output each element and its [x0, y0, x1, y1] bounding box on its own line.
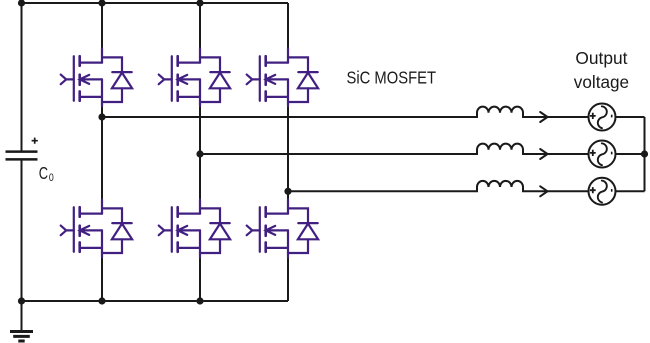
gate lead fork of Q3	[247, 75, 260, 85]
cathode bar of D4	[112, 222, 131, 224]
sine glyph of V3	[598, 181, 607, 203]
anode triangle of D6	[298, 224, 318, 240]
wire: drain stub of Q4	[101, 200, 103, 214]
anode triangle of D4	[112, 224, 132, 240]
gate plate of Q4	[73, 207, 75, 252]
wire: drain stub of Q1	[101, 49, 103, 63]
current arrow on phase A	[540, 112, 547, 122]
wire: source vertical of Q1	[101, 79, 103, 106]
wire: drain stub of Q5	[199, 200, 201, 214]
cathode bar of D1	[112, 71, 131, 73]
node DC+ rail / leg 2	[196, 0, 203, 7]
wire: leg 2 midpoint vertical	[199, 106, 201, 200]
wire: source bar connection of Q2	[178, 96, 200, 98]
inductor LB	[477, 144, 523, 154]
gate plate of Q2	[171, 56, 173, 101]
current arrow on phase B	[540, 149, 547, 159]
wire: anode stub to source	[200, 88, 220, 102]
diode D2 (body diode of Q2)	[200, 57, 230, 102]
wire: V2 to right bus	[616, 153, 645, 155]
cathode bar of D6	[298, 222, 317, 224]
wire: leg 2 source connection to DC- rail	[199, 257, 201, 301]
wire: source vertical of Q5	[199, 230, 201, 257]
wire: leg 2 drain connection to DC+ rail	[199, 3, 201, 49]
wire: source bar connection of Q5	[178, 247, 200, 249]
wire: drain horizontal to channel of Q2	[178, 61, 200, 63]
capacitor C0 (DC link)	[6, 152, 38, 160]
wire: body connection with arrow of Q2	[178, 75, 200, 84]
gate lead fork of Q4	[61, 226, 74, 236]
wire: phase B to load	[522, 153, 589, 155]
node phase C node	[284, 188, 291, 195]
wire: body connection with arrow of Q1	[80, 75, 102, 84]
polarity + of C0	[32, 138, 38, 144]
transistor Q6 (SiC MOSFET, leg at x=288)	[247, 200, 288, 258]
wire: cathode branch from drain	[102, 208, 122, 223]
wire: leg 1 source connection to DC- rail	[101, 257, 103, 301]
channel bars (drain/body/source contacts) of Q2	[176, 56, 179, 101]
AC source V1	[589, 104, 616, 131]
minus tick of V3	[611, 189, 613, 192]
node DC- rail / leg 1	[98, 297, 105, 304]
wire: phase B output from leg	[200, 153, 478, 155]
cathode bar of D3	[298, 71, 317, 73]
diode D3 (body diode of Q3)	[288, 57, 318, 102]
wire: body connection with arrow of Q4	[80, 226, 102, 235]
wire: anode stub to source	[102, 88, 122, 102]
svg-text:Output: Output	[575, 48, 627, 68]
channel bars (drain/body/source contacts) of Q6	[264, 207, 267, 252]
wire: phase A output from leg	[102, 116, 478, 118]
AC source V3	[589, 178, 616, 205]
wire: source bar connection of Q3	[266, 96, 288, 98]
wire: anode stub to source	[288, 239, 308, 253]
svg-text:C: C	[39, 163, 49, 183]
svg-text:voltage: voltage	[574, 72, 629, 92]
wire: body connection with arrow of Q5	[178, 226, 200, 235]
wire: left DC bus upper segment	[21, 3, 23, 152]
plus sign of V1	[590, 113, 596, 119]
gate lead fork of Q6	[247, 226, 260, 236]
plus sign of V2	[590, 150, 596, 156]
channel bars (drain/body/source contacts) of Q5	[176, 207, 179, 252]
transistor Q3 (SiC MOSFET, leg at x=288)	[247, 49, 288, 107]
anode triangle of D5	[210, 224, 230, 240]
transistor Q1 (SiC MOSFET, leg at x=102)	[61, 49, 102, 107]
channel bars (drain/body/source contacts) of Q1	[78, 56, 81, 101]
wire: body connection with arrow of Q3	[266, 75, 288, 84]
wire: bottom DC- rail	[22, 300, 289, 302]
wire: source bar connection of Q6	[266, 247, 288, 249]
wire: cathode branch from drain	[200, 208, 220, 223]
wire: source vertical of Q2	[199, 79, 201, 106]
wire: leg 3 drain connection to DC+ rail	[287, 3, 289, 49]
wire: drain horizontal to channel of Q1	[80, 61, 102, 63]
diode D5 (body diode of Q5)	[200, 208, 230, 253]
svg-text:0: 0	[49, 172, 54, 184]
wire: cathode branch from drain	[288, 57, 308, 72]
wire: top DC+ rail	[22, 2, 289, 4]
wire: drain horizontal to channel of Q6	[266, 213, 288, 215]
wire: source bar connection of Q4	[80, 247, 102, 249]
wire: cathode branch from drain	[102, 57, 122, 72]
node DC- rail / leg 2	[196, 297, 203, 304]
gate lead fork of Q1	[61, 75, 74, 85]
node DC- rail / left bus	[18, 297, 25, 304]
transistor Q4 (SiC MOSFET, leg at x=102)	[61, 200, 102, 258]
node DC+ rail / leg 1	[98, 0, 105, 7]
svg-text:SiC MOSFET: SiC MOSFET	[347, 67, 437, 87]
inductor LA	[477, 107, 523, 117]
wire: source bar connection of Q1	[80, 96, 102, 98]
anode triangle of D1	[112, 73, 132, 89]
sine glyph of V2	[598, 143, 607, 165]
diode D1 (body diode of Q1)	[102, 57, 132, 102]
diode D4 (body diode of Q4)	[102, 208, 132, 253]
gate plate of Q5	[171, 207, 173, 252]
cathode bar of D2	[210, 71, 229, 73]
ground	[10, 301, 33, 341]
wire: anode stub to source	[288, 88, 308, 102]
wire: left DC bus lower segment	[21, 159, 23, 301]
wire: phase C to load	[522, 190, 589, 192]
node phase A node	[98, 113, 105, 120]
wire: anode stub to source	[200, 239, 220, 253]
wire: body connection with arrow of Q6	[266, 226, 288, 235]
cathode bar of D5	[210, 222, 229, 224]
current arrow on phase C	[540, 186, 547, 196]
channel bars (drain/body/source contacts) of Q3	[264, 56, 267, 101]
wire: drain stub of Q6	[287, 200, 289, 214]
wire: cathode branch from drain	[200, 57, 220, 72]
transistor Q5 (SiC MOSFET, leg at x=200)	[159, 200, 200, 258]
plus sign of V3	[590, 187, 596, 193]
transistor Q2 (SiC MOSFET, leg at x=200)	[159, 49, 200, 107]
wire: leg 3 source connection to DC- rail	[287, 257, 289, 301]
node DC+ rail / left bus	[18, 0, 25, 7]
anode triangle of D3	[298, 73, 318, 89]
wire: drain horizontal to channel of Q5	[178, 213, 200, 215]
channel bars (drain/body/source contacts) of Q4	[78, 207, 81, 252]
wire: source vertical of Q3	[287, 79, 289, 106]
wire: anode stub to source	[102, 239, 122, 253]
wire: leg 3 midpoint vertical	[287, 106, 289, 200]
wire: drain horizontal to channel of Q3	[266, 61, 288, 63]
anode triangle of D2	[210, 73, 230, 89]
node phase B node	[196, 150, 203, 157]
wire: leg 1 midpoint vertical	[101, 106, 103, 200]
wire: source vertical of Q4	[101, 230, 103, 257]
wire: source vertical of Q6	[287, 230, 289, 257]
gate plate of Q1	[73, 56, 75, 101]
wire: drain stub of Q3	[287, 49, 289, 63]
wire: phase C output from leg	[288, 190, 478, 192]
wire: cathode branch from drain	[288, 208, 308, 223]
wire: drain horizontal to channel of Q4	[80, 213, 102, 215]
wire: V3 to right bus	[616, 190, 645, 192]
minus tick of V2	[611, 152, 613, 155]
inductor LC	[477, 181, 523, 191]
gate lead fork of Q2	[159, 75, 172, 85]
minus tick of V1	[611, 115, 613, 118]
gate lead fork of Q5	[159, 226, 172, 236]
gate plate of Q3	[259, 56, 261, 101]
gate plate of Q6	[259, 207, 261, 252]
wire: V1 to right bus	[616, 116, 645, 118]
wire: drain stub of Q2	[199, 49, 201, 63]
diode D6 (body diode of Q6)	[288, 208, 318, 253]
node neutral bus / V2	[641, 150, 648, 157]
wire: right neutral bus	[644, 117, 646, 191]
sine glyph of V1	[598, 106, 607, 128]
wire: leg 1 drain connection to DC+ rail	[101, 3, 103, 49]
AC source V2	[589, 141, 616, 168]
wire: phase A to load	[522, 116, 589, 118]
